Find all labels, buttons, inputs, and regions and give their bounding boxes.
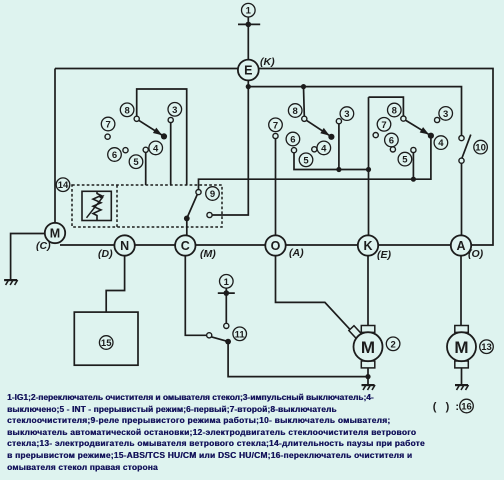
svg-text:5: 5	[133, 157, 139, 168]
svg-text:(M): (M)	[200, 248, 216, 260]
svg-text:11: 11	[235, 329, 246, 340]
svg-text:14: 14	[58, 180, 69, 191]
svg-text:3: 3	[344, 109, 349, 120]
svg-text:8: 8	[124, 105, 129, 116]
svg-text:(O): (O)	[468, 248, 484, 260]
svg-text:5: 5	[303, 155, 309, 166]
svg-text:2: 2	[390, 339, 395, 350]
svg-text:8: 8	[293, 106, 298, 117]
svg-text:4: 4	[321, 143, 327, 154]
svg-text:5: 5	[402, 155, 408, 166]
svg-text:K: K	[363, 239, 372, 253]
svg-text:9: 9	[210, 189, 215, 200]
svg-text:13: 13	[481, 342, 492, 353]
svg-text:10: 10	[475, 143, 486, 154]
svg-text:6: 6	[112, 150, 117, 161]
svg-text:4: 4	[153, 143, 159, 154]
svg-text:15: 15	[101, 338, 112, 349]
svg-text:E: E	[244, 64, 252, 78]
svg-text:8: 8	[392, 106, 397, 117]
svg-text:3: 3	[443, 109, 448, 120]
svg-text:7: 7	[381, 120, 386, 131]
svg-text:4: 4	[438, 138, 444, 149]
svg-text:(K): (K)	[260, 56, 275, 68]
svg-text:C: C	[181, 239, 190, 253]
svg-text:7: 7	[105, 120, 110, 131]
svg-text:1: 1	[246, 6, 252, 17]
svg-text:A: A	[456, 239, 465, 253]
svg-text:M: M	[454, 338, 468, 357]
svg-text:(E): (E)	[377, 249, 392, 261]
svg-text:1: 1	[224, 277, 230, 288]
svg-text:7: 7	[273, 120, 278, 131]
svg-text:N: N	[120, 239, 129, 253]
svg-text:(D): (D)	[98, 248, 113, 260]
svg-text:3: 3	[172, 105, 177, 116]
svg-text:6: 6	[290, 135, 295, 146]
svg-text:M: M	[50, 227, 60, 241]
svg-text:(A): (A)	[289, 247, 304, 259]
svg-text:(C): (C)	[36, 240, 51, 252]
svg-text:6: 6	[389, 136, 394, 147]
svg-text:M: M	[361, 338, 375, 357]
svg-text:O: O	[271, 239, 281, 253]
